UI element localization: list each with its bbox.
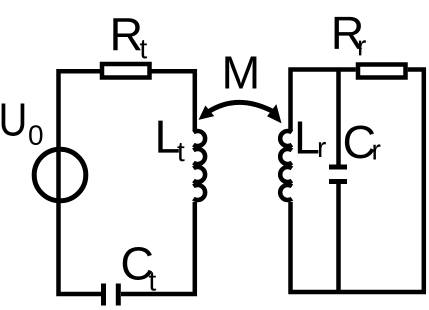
- svg-text:L: L: [294, 112, 320, 164]
- wire right-loop top-right + right side: [408, 70, 424, 293]
- svg-text:t: t: [177, 136, 185, 167]
- inductor L_t: [193, 131, 205, 146]
- svg-text:r: r: [357, 30, 366, 61]
- voltage source U_0: [34, 149, 86, 201]
- wire right-loop left side top: [291, 70, 356, 132]
- svg-text:U: U: [0, 94, 27, 146]
- capacitor C_r: [329, 165, 347, 170]
- svg-text:0: 0: [28, 120, 44, 151]
- wire left-loop top-right segment: [152, 71, 195, 131]
- wire right-loop bottom: [291, 202, 427, 292]
- resistor R_r: [358, 65, 406, 78]
- svg-text:t: t: [140, 33, 148, 64]
- svg-text:t: t: [148, 265, 156, 296]
- svg-text:R: R: [110, 8, 144, 60]
- wire left-loop bottom-right segment: [121, 202, 195, 294]
- wire middle branch bottom: [336, 184, 341, 292]
- resistor R_t: [102, 64, 150, 78]
- arrowhead left of M arrow: [200, 107, 212, 118]
- arrowhead right of M arrow: [269, 106, 280, 121]
- inductor L_r: [280, 131, 292, 146]
- mutual coupling arrow arc M: [208, 102, 273, 112]
- wire middle branch top: [336, 70, 341, 165]
- svg-text:r: r: [317, 132, 326, 163]
- wire left-loop top-left and left side and bottom-left: [59, 71, 102, 294]
- svg-text:M: M: [222, 47, 261, 99]
- svg-text:r: r: [371, 135, 380, 166]
- capacitor C_t: [101, 284, 106, 306]
